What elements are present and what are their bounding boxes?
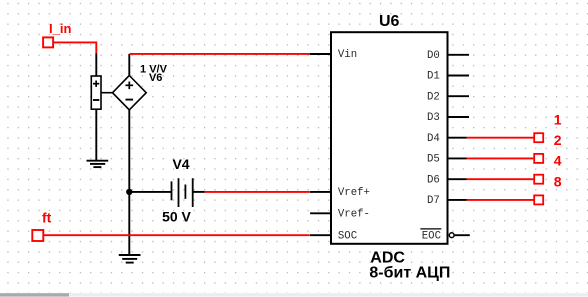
junction [126,189,132,195]
wire sensor bottom to ground (black) [95,109,97,160]
pin D5 [427,154,467,166]
connector sensor to diamond [101,92,113,94]
wire D4 to port 1 (red) [467,137,535,139]
svg-text:D7: D7 [427,195,440,207]
wire I_in to sensor (red) [53,42,96,53]
port I_in [43,21,71,47]
scrollbar [0,293,588,296]
port ft [32,210,51,241]
pin D7 [427,195,467,207]
pin Vin [310,49,357,61]
svg-text:8-бит АЦП: 8-бит АЦП [369,265,450,282]
svg-text:V6: V6 [149,72,162,84]
svg-text:8: 8 [554,173,562,189]
svg-text:2: 2 [554,132,562,148]
svg-text:Vin: Vin [338,49,357,61]
svg-text:D1: D1 [427,71,440,83]
dependent source V6 (diamond) [113,64,168,110]
pin D4 [427,133,467,145]
svg-text:V4: V4 [172,156,189,172]
svg-text:SOC: SOC [338,230,357,242]
wire ft to SOC (red) [43,234,309,236]
svg-text:1: 1 [554,111,562,127]
svg-text:D2: D2 [427,91,440,103]
sense element (input port of source V6) [91,76,101,109]
wire D7 to port 8 (red) [467,199,535,201]
wire D5 to port 2 (red) [467,157,535,159]
pin D3 [427,112,469,124]
ADC U6 box [331,13,448,244]
ADC caption [369,250,450,282]
pin Vref+ [310,187,370,199]
ground (bottom) [119,255,141,263]
port 4 [534,153,562,184]
wire diamond to Vin (red) [130,53,310,55]
svg-text:D4: D4 [427,133,440,145]
svg-text:Vref+: Vref+ [338,187,370,199]
port 1 [534,111,562,142]
pin D2 [427,91,469,103]
svg-text:Vref-: Vref- [338,208,370,220]
svg-text:D5: D5 [427,154,440,166]
svg-text:EOC: EOC [422,230,441,242]
wire junction to battery (black) [129,191,171,193]
pin D1 [427,71,469,83]
wire diamond bottom to ground (black) [128,110,130,255]
svg-text:50 V: 50 V [162,208,191,224]
svg-text:4: 4 [554,153,562,169]
diamond top lead (black) [128,54,130,76]
battery V4 [162,156,205,225]
ground (under sensor) [87,161,109,167]
svg-text:D3: D3 [427,112,440,124]
port 2 [534,132,562,163]
svg-text:D0: D0 [427,50,440,62]
pin EOC (inverted) [420,229,470,242]
svg-text:U6: U6 [379,13,400,30]
wire battery to Vref+ (red) [205,191,310,193]
svg-text:D6: D6 [427,174,440,186]
wire sensor top lead (black) [95,54,97,77]
pin D0 [427,50,469,62]
pin D6 [427,174,467,186]
svg-text:I_in: I_in [49,21,71,36]
wire D6 to port 4 (red) [467,178,535,180]
port 8 [534,173,562,204]
pin SOC [310,230,357,242]
pin Vref- [310,208,370,220]
svg-text:ft: ft [42,210,52,226]
